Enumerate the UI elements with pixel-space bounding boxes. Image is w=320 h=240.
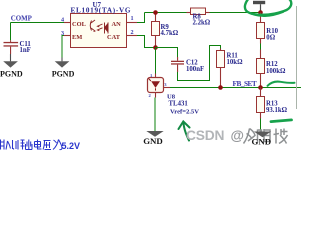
char ren <box>6 140 14 150</box>
svg-text:0Ω: 0Ω <box>266 35 275 42</box>
pin 4 COL stub <box>64 22 71 24</box>
svg-text:5.2V: 5.2V <box>62 141 81 151</box>
wire top rail left of R8 <box>145 12 187 14</box>
watermark CJK ban <box>274 129 288 144</box>
wire top rail right of R8 <box>210 12 261 14</box>
wire node to C12 <box>156 48 178 58</box>
svg-text:PGND: PGND <box>52 69 75 78</box>
svg-text:EL1019(TA)-VG: EL1019(TA)-VG <box>71 7 132 15</box>
wire EM to PGND2 <box>62 36 64 58</box>
wire FB rail <box>170 87 301 89</box>
svg-text:4.7kΩ: 4.7kΩ <box>161 30 179 37</box>
pin 3 EM stub <box>64 35 71 37</box>
resistor R13 <box>260 88 262 97</box>
svg-text:COMP: COMP <box>11 15 33 22</box>
svg-text:FB_SET: FB_SET <box>233 79 257 88</box>
junction R11 bottom <box>218 85 223 90</box>
char wei <box>53 140 62 150</box>
svg-text:2.2kΩ: 2.2kΩ <box>193 19 211 26</box>
svg-text:93.1kΩ: 93.1kΩ <box>266 107 288 114</box>
char dian <box>35 140 42 150</box>
highlighter squiggle right of FB <box>268 82 295 86</box>
svg-text:1nF: 1nF <box>20 47 31 54</box>
svg-text:1: 1 <box>131 15 134 22</box>
wire C12 bottom over to R11 top <box>178 46 221 81</box>
char ya <box>43 141 51 150</box>
highlighter underline right of 93.1k <box>271 120 292 122</box>
svg-text:R12: R12 <box>266 61 278 68</box>
transistor U8 TL431 body <box>148 78 164 93</box>
svg-text:@: @ <box>231 128 244 143</box>
highlighter arrow bottom middle <box>179 122 190 141</box>
svg-text:EM: EM <box>72 34 82 41</box>
svg-text:4: 4 <box>61 17 64 24</box>
svg-text:100nF: 100nF <box>186 66 204 73</box>
power VCC bar <box>253 1 265 13</box>
watermark CJK xi <box>244 129 256 144</box>
ground GND right <box>252 132 272 147</box>
resistor R8 <box>187 12 191 14</box>
partial char mo <box>1 140 5 150</box>
ground GND left <box>143 131 164 146</box>
wire right edge vertical <box>296 6 298 109</box>
svg-text:PGND: PGND <box>0 69 23 78</box>
svg-text:GND: GND <box>252 137 272 147</box>
transistor U8 TL431 cathode wire <box>155 48 157 74</box>
resistor R12 <box>257 59 265 74</box>
resistor R11 <box>220 49 222 51</box>
wire COMP horizontal <box>11 22 65 24</box>
svg-text:COL: COL <box>72 21 86 28</box>
svg-text:Vref=2.5V: Vref=2.5V <box>170 108 199 115</box>
power ground PGND2 <box>52 58 75 79</box>
char shu <box>16 140 25 150</box>
pin 1 AN stub <box>127 22 138 24</box>
opto internals: phototransistor + LED <box>90 20 108 34</box>
svg-text:100kΩ: 100kΩ <box>266 68 286 75</box>
pin 2 CAT stub <box>127 35 138 37</box>
junction node cathode <box>153 45 158 50</box>
capacitor C11 <box>4 40 19 54</box>
svg-text:TL431: TL431 <box>169 100 189 107</box>
svg-text:GND: GND <box>143 136 163 146</box>
svg-text:3: 3 <box>61 30 64 37</box>
svg-text:AN: AN <box>112 21 122 28</box>
wire TL431 anode to GND <box>154 98 156 132</box>
junction VCC <box>258 10 263 15</box>
svg-text:10kΩ: 10kΩ <box>227 59 244 66</box>
svg-text:CAT: CAT <box>107 34 121 41</box>
wire R13 to GND <box>260 119 262 132</box>
wire pin2 to node <box>137 36 154 48</box>
svg-text:2: 2 <box>131 29 134 36</box>
note text blue (default output voltage 5.2V) <box>1 140 63 150</box>
wire R10-R12 <box>260 39 262 44</box>
resistor R10 <box>260 13 262 23</box>
wire pin1 to top rail <box>137 13 145 23</box>
char chu <box>26 140 33 150</box>
junction FB <box>258 85 263 90</box>
power ground PGND1 <box>0 54 23 78</box>
watermark CJK yang <box>258 129 271 143</box>
highlighter loop around VCC <box>245 0 291 15</box>
op-amp U7 optocoupler box <box>71 14 127 48</box>
junction top R9 <box>153 10 158 15</box>
capacitor C12 <box>171 57 184 72</box>
wire COMP down to C11 <box>10 23 12 41</box>
resistor R9 <box>155 13 157 22</box>
svg-text:CSDN: CSDN <box>186 128 225 143</box>
